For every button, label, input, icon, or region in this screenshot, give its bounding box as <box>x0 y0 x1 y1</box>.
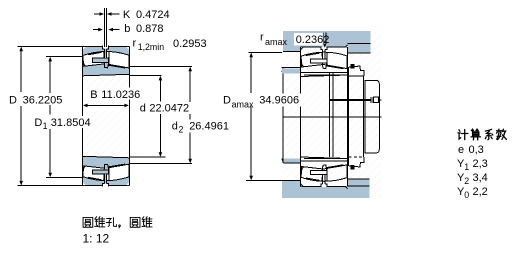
bearing L-upper: lubrication hole channel <box>104 49 106 59</box>
shaft centerline <box>283 116 381 118</box>
svg-text:0.2362: 0.2362 <box>296 34 330 46</box>
svg-text:34.9606: 34.9606 <box>259 95 299 107</box>
bearing R-upper: lubrication hole channel <box>323 49 325 59</box>
bearing side faces / B extension lines <box>82 46 84 185</box>
lock nut cross-section <box>348 76 350 157</box>
svg-text:d: d <box>172 121 178 133</box>
bearing L-lower: right roller edges <box>109 164 125 180</box>
abutment shoulder upper-left (blue) <box>282 66 301 68</box>
threaded end detail <box>370 97 371 103</box>
bearing R-upper: cage bar <box>311 59 327 63</box>
bearing L-lower: OD groove notch <box>103 183 109 186</box>
dimension D1: extension lines, dim line, arrows <box>46 56 83 58</box>
svg-text:1: 1 <box>464 162 469 172</box>
bearing R-lower: left roller edges <box>302 167 323 181</box>
bearing R-lower: center guide wedge <box>322 165 327 171</box>
sleeve threaded end (thick line) <box>329 99 371 101</box>
dimension text labels, left view <box>6 9 231 135</box>
caption: tapered bore text (CJK drawn as paths) <box>83 217 93 227</box>
housing recess line right of bearing (lower) <box>348 185 370 187</box>
value box 0.2362 <box>294 33 323 46</box>
dimension D: extension lines, dim line, arrows <box>18 45 83 47</box>
bearing R-lower: right roller edges <box>327 165 343 181</box>
bearing R-lower: tapered bore edge <box>301 157 348 159</box>
inner ring side recess line (upper) <box>301 71 348 73</box>
bearing L-lower: center guide wedge <box>104 164 109 170</box>
housing upper band (blue) <box>283 31 370 53</box>
bearing R-lower: cage bar <box>311 171 327 175</box>
svg-text:r: r <box>133 37 137 49</box>
bearing R-lower: raceway/roller white region <box>301 165 347 181</box>
svg-text:amax: amax <box>232 99 255 109</box>
lock washer (upper) <box>349 66 365 76</box>
adapter sleeve surface (lower) <box>304 158 348 160</box>
svg-text:D: D <box>223 95 231 107</box>
bearing L-lower: lubrication hole channel <box>104 174 106 184</box>
adapter sleeve surface (upper) <box>304 74 348 76</box>
svg-text:0,3: 0,3 <box>469 144 484 156</box>
K groove lines <box>103 8 105 47</box>
lock nut side view (rounded corners) <box>365 80 379 152</box>
dimension d: extension lines, dim line, arrows <box>130 75 162 77</box>
bearing L-lower: OD edge <box>83 185 130 187</box>
bearing R-upper: tapered bore edge <box>301 75 348 77</box>
right view hatch block <box>283 31 381 199</box>
svg-text:d: d <box>140 102 146 114</box>
svg-text:amax: amax <box>265 37 288 47</box>
housing left face line with da arrows <box>282 67 284 163</box>
svg-text:11.0236: 11.0236 <box>101 89 140 101</box>
bearing L-upper: OD edge <box>83 45 130 47</box>
dimension d2: extension lines, dim line, arrows <box>130 66 192 68</box>
svg-text:r: r <box>260 32 264 44</box>
bearing R-lower: OD edge <box>301 185 348 187</box>
svg-text:0: 0 <box>464 190 469 200</box>
bore region hatch <box>83 76 129 156</box>
dimension B: dim line with outward arrows <box>87 104 125 106</box>
bearing R-lower: lubrication hole channel <box>323 175 325 185</box>
bearing R-upper: right roller edges <box>327 53 343 69</box>
svg-text:0.4724: 0.4724 <box>136 9 170 21</box>
svg-text:e: e <box>458 144 464 156</box>
bearing R-upper: OD edge <box>301 46 348 48</box>
svg-text:K: K <box>123 9 131 21</box>
svg-text:0.878: 0.878 <box>136 23 164 35</box>
svg-text:0.2953: 0.2953 <box>173 38 207 50</box>
svg-text:22.0472: 22.0472 <box>149 102 189 114</box>
bearing L-lower: left roller edges <box>83 166 104 180</box>
bearing L-lower: ring section (blue) <box>83 156 130 185</box>
svg-text:D: D <box>34 117 42 129</box>
svg-text:2: 2 <box>464 176 469 186</box>
bearing L-lower: tapered bore edge <box>83 156 130 158</box>
housing recess line right of bearing (upper) <box>348 43 371 45</box>
svg-text:D: D <box>9 95 17 107</box>
bearing L-lower: cage bar <box>92 170 108 174</box>
outer ring corner chamfers <box>83 47 129 185</box>
dimension ra ticks and arrow <box>323 33 325 45</box>
washer locking tab upper (solid) <box>351 64 355 69</box>
bearing L-upper: right roller edges <box>109 52 125 68</box>
bearing L-upper: tapered bore edge <box>83 74 130 76</box>
svg-text:1: 12: 1: 12 <box>83 232 110 246</box>
shaft end face and chamfer <box>329 73 331 157</box>
bearing side faces (mounted) <box>300 47 302 186</box>
bearing L-upper: center guide wedge <box>104 62 109 68</box>
svg-text:3,4: 3,4 <box>473 172 488 184</box>
bearing L-upper: cage bar <box>92 58 108 62</box>
svg-text:2,2: 2,2 <box>473 186 488 198</box>
svg-text:2: 2 <box>179 125 184 135</box>
svg-text:31.8504: 31.8504 <box>51 117 91 129</box>
lock washer (lower) <box>349 157 365 167</box>
bearing L-upper: OD groove notch <box>103 46 109 49</box>
svg-text:b: b <box>124 23 130 35</box>
bearing L-upper: ring section (blue) <box>83 46 130 75</box>
table header: calculation factors (CJK drawn as paths, bold) <box>458 130 468 140</box>
bearing L-lower: raceway/roller white region <box>83 164 129 180</box>
label Damax 34.9606 <box>221 94 302 107</box>
bearing L-upper: left roller edges <box>83 52 104 66</box>
svg-text:1: 1 <box>43 121 48 131</box>
inner ring side recess line (lower) <box>301 160 348 162</box>
bearing corner chamfers (mounted) <box>301 47 303 50</box>
dimension K arrows <box>94 13 100 15</box>
washer locking tab lower (solid) <box>351 165 355 170</box>
dimension Da: extension lines and dim line <box>246 52 282 180</box>
dimension b arrows <box>93 29 99 31</box>
svg-text:B: B <box>90 89 97 101</box>
bearing R-upper: raceway/roller white region <box>301 52 347 68</box>
bearing R-upper: OD groove notch <box>321 47 327 50</box>
svg-text:26.4961: 26.4961 <box>189 121 229 133</box>
bearing R-upper: left roller edges <box>302 53 323 67</box>
abutment shoulder lower-left (blue) <box>284 159 301 163</box>
bearing R-lower: OD groove notch <box>321 184 327 187</box>
dimension annotations, left view <box>18 8 193 186</box>
housing lower band (blue) <box>282 179 370 198</box>
bearing R-upper: center guide wedge <box>322 63 327 69</box>
svg-text:1,2min: 1,2min <box>138 42 165 52</box>
svg-text:36.2205: 36.2205 <box>23 95 63 107</box>
svg-text:2,3: 2,3 <box>473 158 488 170</box>
bearing L-upper: raceway/roller white region <box>83 51 129 67</box>
